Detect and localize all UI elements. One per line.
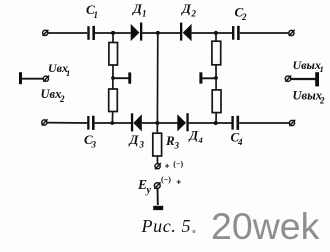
wire top-left to C1 (48, 32, 87, 34)
label Uвых1 (293, 58, 324, 74)
input terminal bottom-left (42, 119, 48, 125)
left tap terminal bar (128, 72, 131, 83)
resistor right-bottom (212, 90, 221, 113)
svg-text:3: 3 (139, 140, 145, 150)
svg-text:4: 4 (198, 135, 203, 145)
wire bottom center node to R3 (156, 123, 158, 134)
diode Д2 (180, 1, 197, 41)
wire center vertical (156, 33, 158, 123)
svg-text:20wek: 20wek (211, 205, 320, 247)
output terminal top-right (289, 30, 295, 36)
control terminal lower, source Ey (137, 175, 181, 196)
svg-text:Uвых: Uвых (293, 89, 323, 103)
svg-text:3: 3 (91, 140, 97, 150)
node: top center junction (156, 31, 160, 35)
wire D2 to C2 (192, 32, 232, 34)
node: bottom center junction (155, 121, 159, 125)
svg-text:Uвх: Uвх (41, 87, 62, 101)
wire C3 to diode D3 (95, 122, 131, 124)
wire C2 to output terminal (240, 32, 289, 34)
node: left divider tap (111, 76, 115, 80)
wire top node to left resistor chain (112, 33, 114, 43)
capacitor C1 (86, 2, 98, 40)
wire D4 to C4 (189, 122, 232, 124)
svg-text:1: 1 (320, 64, 324, 74)
wire D1 to D2 through center node (142, 32, 180, 34)
svg-text:1: 1 (142, 8, 147, 18)
svg-text:2: 2 (241, 12, 247, 22)
svg-text:4: 4 (237, 137, 243, 147)
wire R3 to control terminal (156, 156, 158, 164)
svg-text:у: у (146, 185, 152, 196)
svg-text:2: 2 (59, 94, 65, 104)
svg-text:+: + (176, 176, 181, 186)
node: C3 / left divider junction (110, 121, 114, 125)
svg-text:1: 1 (66, 68, 70, 78)
diode Д1 (131, 1, 147, 41)
diode Д3 (129, 113, 145, 149)
label Uвх1 (48, 61, 70, 78)
wire left tap stub (113, 77, 129, 79)
right tap terminal bar (199, 72, 202, 83)
capacitor C3 (84, 116, 97, 150)
wire top node to right resistor chain (215, 33, 217, 42)
svg-text:+: + (165, 161, 170, 171)
wire between left resistors (112, 65, 114, 89)
wire left input lead (22, 78, 44, 80)
output terminal bottom-right (289, 120, 295, 126)
svg-text:(−): (−) (161, 175, 171, 184)
wire Ey down lead (157, 188, 159, 206)
resistor left-top (109, 43, 118, 66)
Ey bottom terminal bar (153, 206, 163, 210)
right output terminal circle (285, 76, 291, 82)
wire right tap stub (202, 77, 216, 79)
wire right output lead (291, 78, 316, 80)
node: C1 / left divider junction (111, 31, 115, 35)
node: D4 / right divider junction (214, 121, 218, 125)
left input terminal circle (43, 76, 49, 82)
wire D3 to D4 through center node (142, 122, 178, 124)
svg-text:Рис. 5: Рис. 5 (141, 216, 192, 236)
svg-text:(−): (−) (173, 160, 183, 169)
diode Д4 (177, 113, 202, 145)
resistor left-bottom (109, 89, 118, 112)
wire C1 to diode D1 (95, 32, 131, 34)
capacitor C2 (232, 5, 247, 41)
control terminal upper (+) (155, 160, 184, 171)
svg-text:Д: Д (181, 1, 192, 16)
wire C4 to output terminal (239, 122, 289, 124)
node: D2 / right divider junction (214, 31, 218, 35)
svg-text:2: 2 (319, 95, 325, 105)
resistor R3 (153, 133, 180, 156)
svg-text:R: R (165, 133, 175, 148)
watermark leading dot (192, 230, 195, 233)
wire left chain to bottom rail (111, 112, 113, 124)
node: right divider tap (214, 76, 218, 80)
svg-text:Д: Д (129, 132, 140, 147)
wire right chain to bottom rail (215, 113, 217, 123)
svg-text:3: 3 (174, 141, 180, 151)
svg-text:E: E (137, 177, 147, 192)
svg-text:Д: Д (189, 129, 199, 143)
right output plug bar (315, 72, 319, 86)
capacitor C4 (231, 116, 244, 147)
label Uвх2 (41, 87, 66, 104)
svg-text:Uвых: Uвых (293, 58, 321, 72)
input terminal top-left (43, 30, 49, 36)
wire bottom-left to C3 (47, 122, 88, 124)
left input plug bar (19, 72, 22, 84)
svg-text:2: 2 (191, 8, 197, 18)
label Uвых2 (293, 89, 326, 106)
wire between right resistors (215, 65, 217, 90)
svg-text:1: 1 (94, 10, 99, 20)
resistor right-top (212, 41, 221, 65)
